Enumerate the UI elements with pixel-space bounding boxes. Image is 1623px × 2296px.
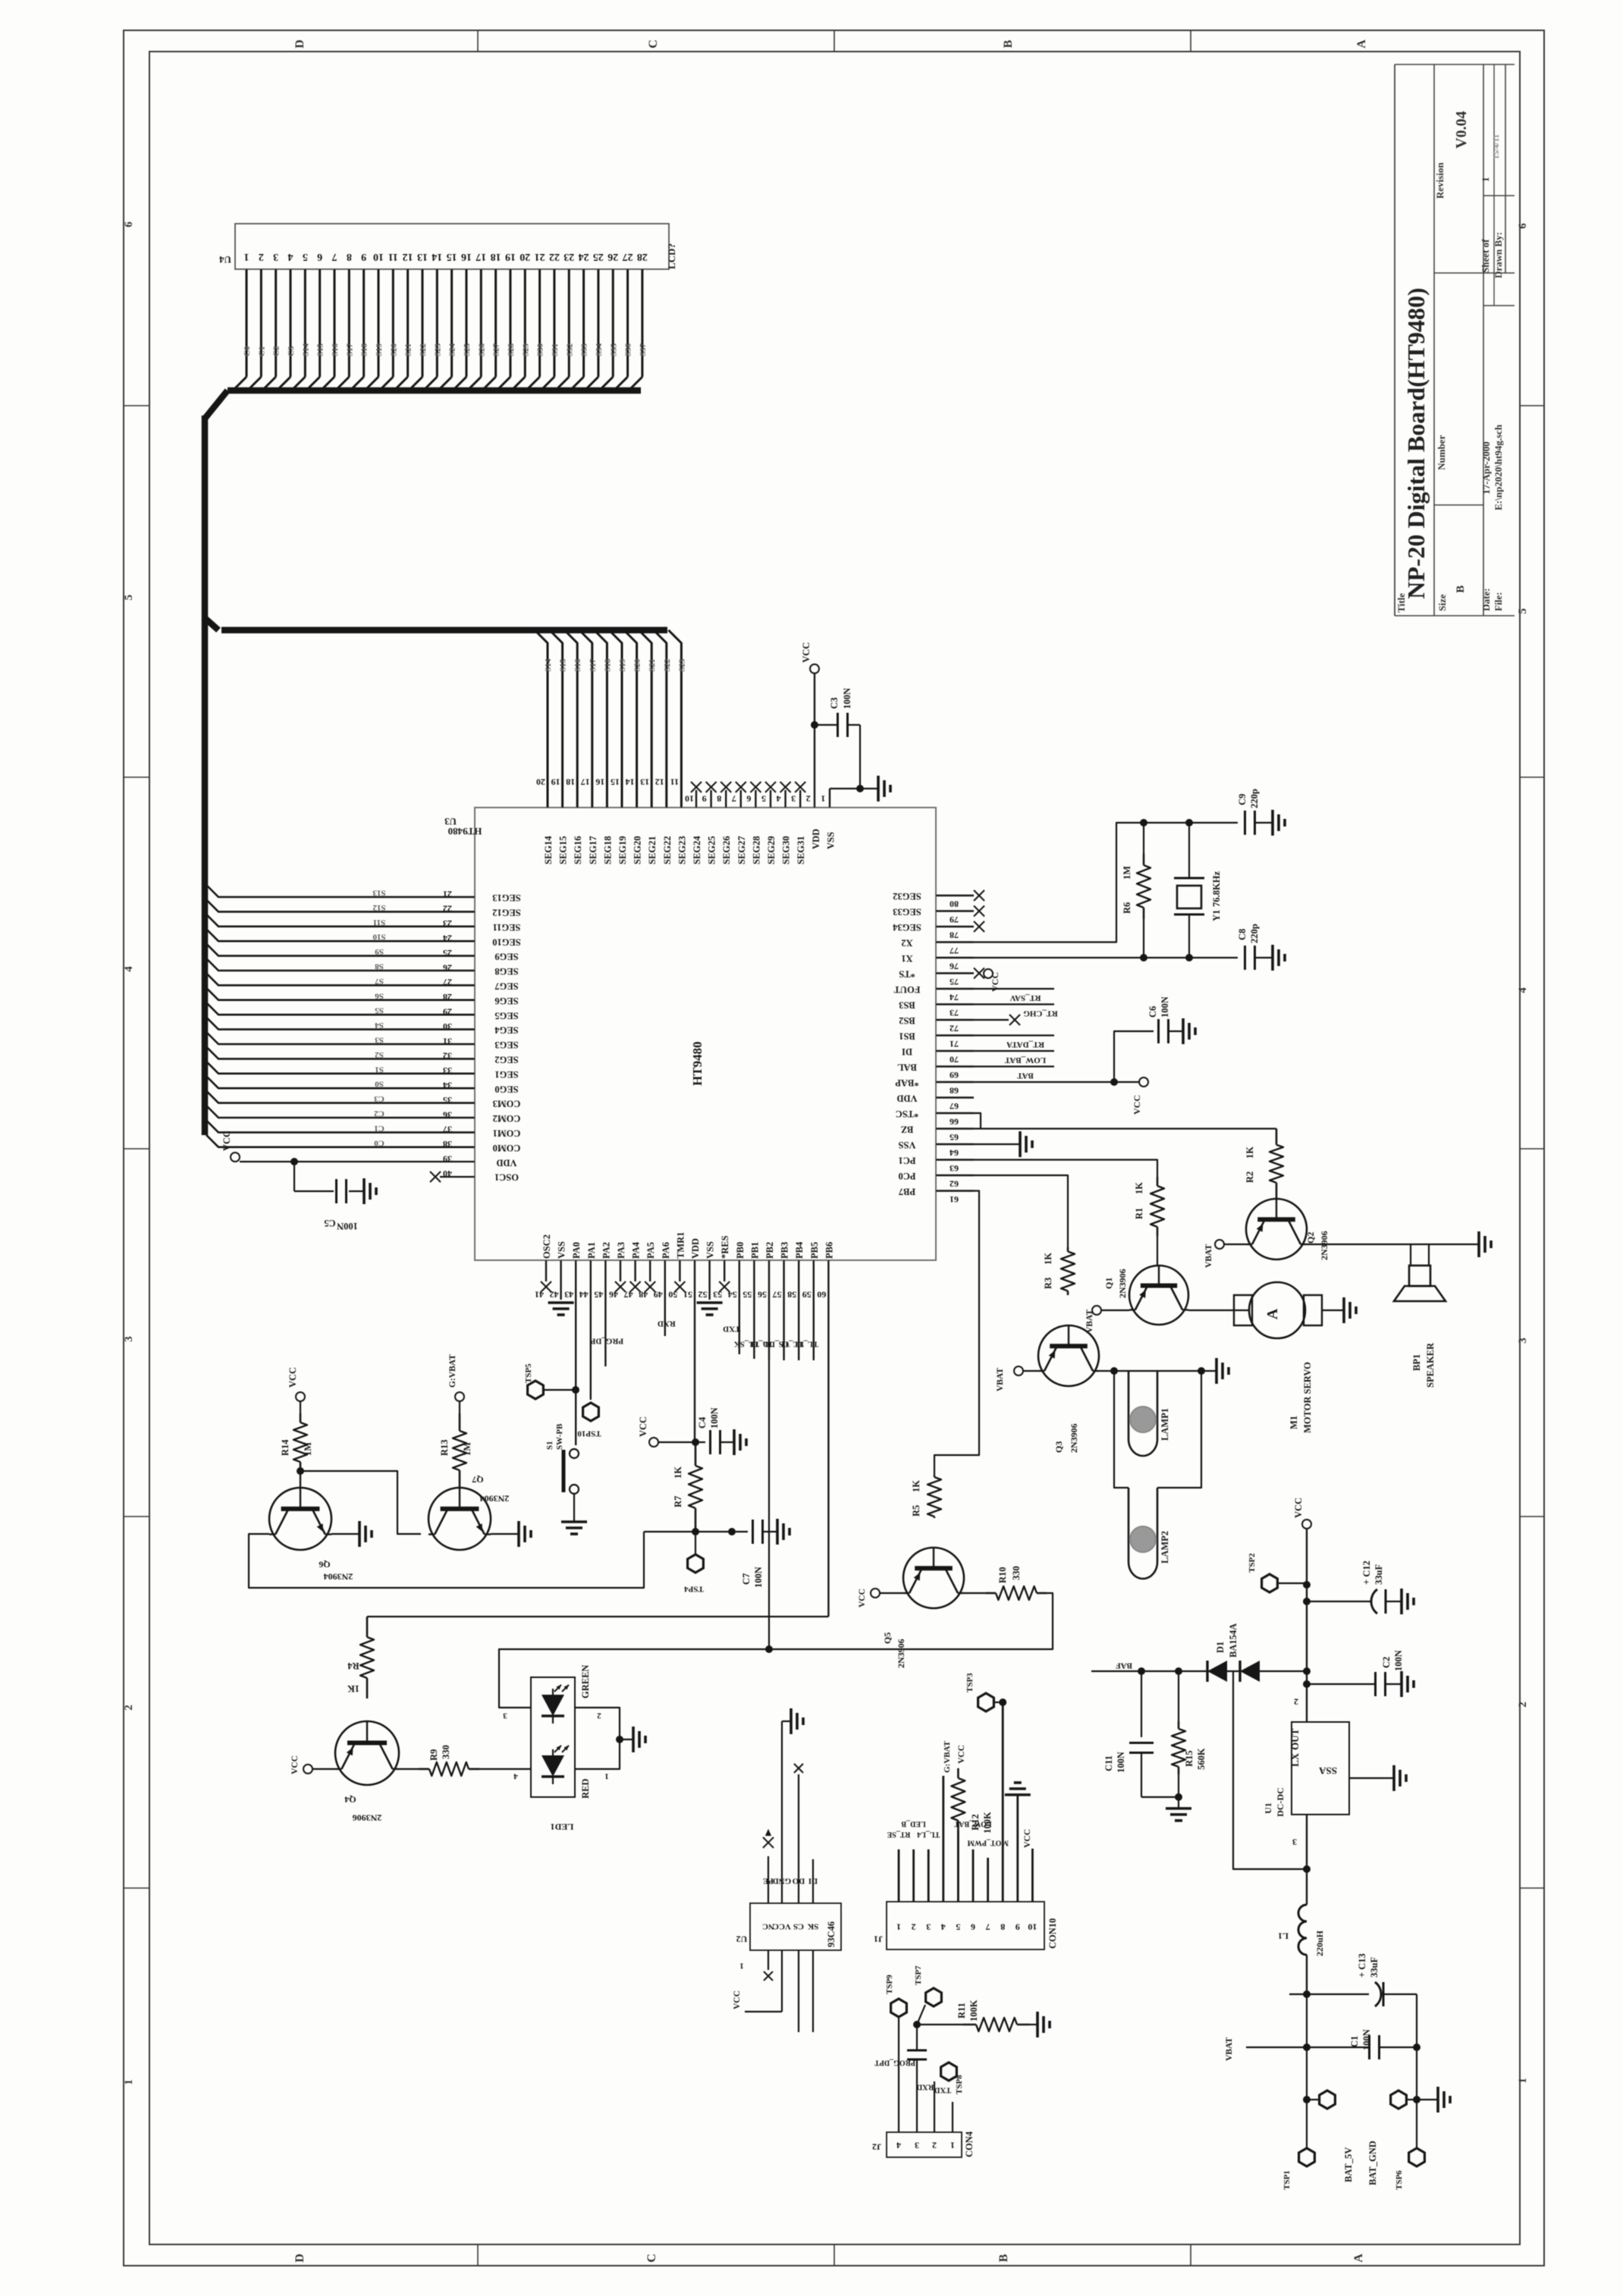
J1 pin numbers [896, 1921, 1037, 1932]
capacitor C1 100N [1349, 2029, 1421, 2059]
test point TSP4 [684, 1532, 704, 1593]
ground at U2 GND [791, 1708, 803, 1734]
svg-text:C9: C9 [1237, 794, 1248, 805]
svg-text:11: 11 [670, 776, 679, 787]
svg-text:V0.04: V0.04 [1453, 111, 1470, 149]
svg-text:100N: 100N [753, 1567, 764, 1588]
svg-text:C1: C1 [257, 347, 266, 356]
svg-text:Q1: Q1 [1103, 1278, 1114, 1289]
svg-text:S19: S19 [618, 658, 627, 672]
svg-text:R14: R14 [280, 1439, 290, 1456]
ground at C9 [1273, 810, 1285, 836]
svg-text:5: 5 [761, 793, 766, 804]
svg-text:78: 78 [950, 930, 959, 940]
U3 right pin stubs [936, 896, 974, 1191]
VCC at J1 pin 10 [1023, 1829, 1032, 1848]
svg-text:PC0: PC0 [899, 1171, 916, 1181]
svg-text:PB3: PB3 [780, 1242, 790, 1259]
svg-text:76.8KHz: 76.8KHz [1211, 871, 1222, 907]
svg-text:S5: S5 [375, 1006, 384, 1015]
x marks unused right pins [974, 890, 984, 979]
svg-text:A: A [1355, 39, 1368, 49]
svg-text:24: 24 [579, 251, 589, 262]
LED1 box [531, 1665, 591, 1833]
LED red [542, 1755, 564, 1777]
svg-text:70: 70 [950, 1054, 959, 1065]
test point TSP9 [885, 1974, 906, 2017]
svg-text:8: 8 [1000, 1921, 1005, 1932]
svg-text:S29: S29 [521, 343, 530, 356]
svg-text:G:VBAT: G:VBAT [448, 1354, 457, 1388]
svg-text:C5: C5 [324, 1218, 335, 1228]
ground after R11 [1038, 2012, 1050, 2037]
svg-text:1: 1 [950, 2140, 955, 2150]
svg-text:220p: 220p [1249, 924, 1260, 943]
capacitor C3 100N [815, 688, 860, 737]
svg-text:BA154A: BA154A [1228, 1623, 1238, 1658]
wire BS1 [974, 1034, 1054, 1036]
wire TSC jog to BZ net [974, 1113, 981, 1129]
VBAT at Q3 emitter [996, 1366, 1038, 1391]
svg-text:3: 3 [123, 1336, 135, 1342]
svg-text:DO: DO [792, 1876, 805, 1885]
svg-text:SEG23: SEG23 [677, 836, 687, 864]
svg-text:26: 26 [607, 251, 618, 262]
svg-text:100N: 100N [1160, 996, 1170, 1018]
svg-text:SEG9: SEG9 [494, 952, 518, 962]
ground at J1 pin 9 [1005, 1783, 1031, 1795]
ground at U3 pin 52 VSS [697, 1303, 723, 1315]
svg-text:C2: C2 [374, 1109, 385, 1118]
svg-text:68: 68 [950, 1085, 959, 1096]
svg-text:1: 1 [1480, 177, 1491, 183]
svg-text:33uF: 33uF [1369, 1957, 1380, 1978]
svg-text:PB1: PB1 [749, 1242, 760, 1259]
svg-text:J2: J2 [872, 2141, 881, 2152]
U3 right pin numbers [950, 899, 959, 1205]
svg-text:SEG19: SEG19 [617, 836, 628, 864]
bus main vertical [202, 416, 209, 1135]
zone letters bottom edge [294, 2254, 1365, 2263]
svg-text:1: 1 [123, 2079, 135, 2085]
svg-text:S33: S33 [580, 343, 589, 356]
svg-text:10: 10 [685, 793, 694, 804]
diode D1b [1240, 1661, 1260, 1682]
svg-text:TSP1: TSP1 [1282, 2170, 1292, 2190]
svg-text:SEG2: SEG2 [494, 1055, 518, 1065]
svg-text:TXD: TXD [723, 1324, 740, 1333]
svg-text:62: 62 [950, 1178, 959, 1189]
svg-text:3: 3 [1517, 1338, 1529, 1344]
svg-text:SEG26: SEG26 [721, 836, 732, 864]
speaker BP1 [1394, 1266, 1446, 1388]
svg-text:1K: 1K [347, 1683, 359, 1694]
svg-text:23: 23 [563, 251, 574, 262]
svg-text:LOW_BAT: LOW_BAT [1004, 1055, 1046, 1065]
svg-text:VCC: VCC [801, 642, 811, 663]
svg-text:16: 16 [595, 776, 604, 787]
svg-text:SEG4: SEG4 [494, 1025, 519, 1036]
svg-text:SW-PB: SW-PB [555, 1423, 564, 1450]
svg-text:1: 1 [739, 1961, 744, 1970]
svg-text:2N3906: 2N3906 [1319, 1231, 1329, 1260]
svg-text:LED_B: LED_B [901, 1820, 926, 1828]
ground at C3/VSS [878, 776, 890, 801]
capacitor C5 100N [294, 1162, 364, 1231]
svg-text:10: 10 [1028, 1921, 1037, 1932]
svg-text:43: 43 [564, 1289, 573, 1300]
zone letters top edge [294, 39, 1368, 49]
svg-text:2N3904: 2N3904 [480, 1493, 510, 1504]
ground at C5 [364, 1178, 376, 1204]
svg-text:SEG10: SEG10 [492, 936, 521, 947]
resistor R14 1M [280, 1401, 313, 1475]
svg-text:VBAT: VBAT [1204, 1244, 1213, 1268]
svg-text:B: B [997, 2254, 1010, 2262]
ground at BAT_GND [1417, 2087, 1450, 2113]
svg-text:B: B [1002, 39, 1015, 48]
svg-text:HT9480: HT9480 [690, 1041, 705, 1086]
svg-text:2: 2 [806, 793, 811, 804]
svg-text:S18: S18 [360, 343, 369, 356]
inductor L1 220uH [1278, 1905, 1325, 1994]
svg-text:R4: R4 [347, 1661, 359, 1671]
svg-text:C8: C8 [1237, 929, 1248, 940]
svg-text:1M: 1M [462, 1442, 472, 1456]
U3 OSC1 pin 40 no connect [430, 1172, 475, 1182]
svg-text:S22: S22 [419, 343, 428, 356]
svg-text:1K: 1K [1134, 1182, 1144, 1194]
svg-text:J1: J1 [874, 1934, 883, 1944]
svg-text:SEG16: SEG16 [573, 836, 583, 864]
svg-text:74: 74 [950, 992, 959, 1002]
svg-text:SEG29: SEG29 [766, 836, 777, 864]
svg-text:S23: S23 [677, 658, 686, 672]
svg-text:COM0: COM0 [493, 1143, 521, 1153]
svg-text:C0: C0 [374, 1138, 385, 1147]
svg-text:S15: S15 [559, 658, 568, 672]
svg-text:TSP2: TSP2 [1248, 1553, 1257, 1573]
svg-text:RT_SE: RT_SE [887, 1830, 910, 1839]
svg-text:Q2: Q2 [1305, 1232, 1316, 1244]
wire C7 node [644, 1531, 732, 1532]
svg-text:100K: 100K [968, 2000, 979, 2022]
svg-text:S1: S1 [375, 1065, 384, 1074]
wire Q2 collector to speaker and ground [1307, 1244, 1479, 1266]
svg-text:COM1: COM1 [493, 1128, 521, 1139]
svg-text:9: 9 [702, 793, 707, 804]
svg-text:OUT: OUT [1289, 1729, 1301, 1751]
G:VBAT above R13 [448, 1354, 464, 1401]
wire BS3 RT_SAV [974, 993, 1054, 1005]
svg-text:Q5: Q5 [882, 1633, 893, 1644]
svg-text:VCC: VCC [773, 1921, 791, 1931]
svg-text:Q3: Q3 [1053, 1441, 1064, 1453]
transistor Q5 2N3906 [882, 1548, 964, 1668]
svg-text:65: 65 [950, 1132, 959, 1143]
svg-text:U1: U1 [1263, 1802, 1273, 1814]
svg-text:S26: S26 [477, 343, 486, 356]
svg-text:TSP8: TSP8 [955, 2075, 964, 2094]
svg-text:S20: S20 [633, 658, 642, 672]
svg-text:PA0: PA0 [571, 1242, 582, 1259]
capacitor C13 33uF polarized [1357, 1953, 1417, 2006]
svg-text:C1: C1 [374, 1124, 384, 1133]
svg-text:S1: S1 [545, 1441, 554, 1450]
svg-text:C7: C7 [741, 1573, 752, 1585]
svg-text:S21: S21 [648, 659, 657, 672]
svg-text:VSS: VSS [898, 1140, 915, 1150]
svg-text:S20: S20 [389, 343, 398, 356]
svg-text:BAT_GND: BAT_GND [1367, 2141, 1378, 2185]
svg-text:SPEAKER: SPEAKER [1425, 1342, 1436, 1388]
zone numbers left edge [123, 221, 135, 2085]
BAT_GND terminal [1367, 2091, 1424, 2190]
svg-text:BAL: BAL [897, 1062, 917, 1073]
svg-text:220p: 220p [1249, 789, 1260, 808]
svg-text:VBAT: VBAT [1225, 2037, 1234, 2061]
svg-text:BZ: BZ [901, 1124, 914, 1135]
U3 left pin wires to bus [206, 885, 475, 1147]
svg-text:S22: S22 [663, 658, 672, 672]
VCC at Q4 emitter [290, 1755, 335, 1774]
svg-text:R5: R5 [911, 1505, 921, 1517]
svg-text:S27: S27 [492, 343, 501, 356]
U4 pin wires to bus [234, 269, 642, 390]
J1 pin wires [899, 1702, 1032, 1902]
svg-text:SEG3: SEG3 [494, 1040, 518, 1050]
svg-text:R3: R3 [1043, 1278, 1053, 1289]
resistor R4 1K [347, 1617, 374, 1698]
svg-text:4: 4 [287, 251, 293, 262]
resistor R5 1K [911, 1476, 941, 1518]
svg-text:2: 2 [123, 1705, 135, 1711]
svg-text:SEG13: SEG13 [492, 892, 521, 903]
svg-text:S8: S8 [375, 961, 384, 971]
wire PB6 to R4 [367, 1616, 828, 1617]
svg-text:18: 18 [566, 776, 575, 787]
svg-text:6: 6 [971, 1921, 975, 1932]
LED green [542, 1695, 564, 1716]
svg-text:58: 58 [787, 1289, 796, 1300]
svg-text:61: 61 [950, 1194, 959, 1205]
ground right of U1 [1349, 1765, 1406, 1791]
svg-text:20: 20 [520, 251, 530, 262]
svg-text:16: 16 [461, 251, 472, 262]
svg-text:+ C12: + C12 [1361, 1560, 1372, 1585]
svg-text:R13: R13 [439, 1439, 450, 1456]
IC U3 box [475, 808, 936, 1260]
svg-text:S12: S12 [372, 903, 386, 912]
svg-text:25: 25 [593, 251, 604, 262]
svg-text:CS: CS [793, 1921, 804, 1931]
svg-text:PB2: PB2 [764, 1242, 775, 1259]
U3 right pin names [892, 891, 921, 1197]
svg-text:13: 13 [640, 776, 649, 787]
svg-text:93C46: 93C46 [826, 1921, 837, 1947]
VBAT at Q1 emitter [1085, 1306, 1129, 1333]
svg-text:9: 9 [1016, 1921, 1020, 1932]
svg-text:7: 7 [331, 251, 337, 262]
svg-text:RED: RED [580, 1779, 591, 1799]
svg-text:Sheet of: Sheet of [1480, 239, 1491, 273]
svg-text:X2: X2 [901, 938, 912, 949]
wire R10 to LED1 green anode [499, 1593, 1053, 1708]
bus upper horizontal [228, 387, 641, 394]
svg-text:PROG_DPT: PROG_DPT [874, 2059, 915, 2067]
svg-text:BS1: BS1 [899, 1031, 915, 1042]
svg-text:SEG15: SEG15 [558, 836, 569, 864]
svg-text:17-Apr-2000: 17-Apr-2000 [1480, 441, 1492, 494]
svg-text:PA5: PA5 [645, 1242, 656, 1259]
svg-text:*BAP: *BAP [895, 1077, 919, 1088]
svg-text:6: 6 [746, 793, 751, 804]
bus left elbow [205, 391, 228, 419]
svg-text:PB0: PB0 [735, 1242, 746, 1259]
wire FOUT pin 74 [974, 988, 1054, 990]
x marks on unused bottom pins [541, 1281, 730, 1292]
svg-text:TSP7: TSP7 [914, 1965, 923, 1985]
svg-text:1: 1 [244, 251, 250, 262]
svg-text:6: 6 [1517, 223, 1529, 229]
VBAT wire [1225, 2037, 1369, 2061]
U3 left wire net labels [372, 888, 386, 1147]
svg-text:SEG17: SEG17 [588, 836, 598, 864]
capacitor C11 100N [1103, 1671, 1154, 1797]
svg-text:OSC1: OSC1 [494, 1172, 519, 1183]
capacitor C6 100N [1114, 996, 1183, 1082]
svg-text:2N3906: 2N3906 [896, 1639, 906, 1668]
J2 net labels [874, 2059, 951, 2094]
svg-text:VCC: VCC [638, 1416, 648, 1437]
connector U4 LCD box [235, 224, 669, 269]
svg-text:VBAT: VBAT [1085, 1310, 1094, 1333]
svg-text:DI: DI [902, 1046, 912, 1057]
svg-text:2: 2 [1517, 1702, 1529, 1708]
U3 bottom pin names [542, 1232, 834, 1259]
svg-text:14: 14 [626, 776, 635, 787]
svg-text:4: 4 [123, 966, 135, 972]
resistor R15 560K [1172, 1671, 1207, 1797]
EEPROM U2 93C46 box [736, 1903, 841, 1950]
svg-text:S6: S6 [375, 991, 384, 1000]
U3 bottom pin stubs [546, 1260, 828, 1617]
svg-text:TXD: TXD [934, 2086, 951, 2094]
svg-text:100N: 100N [1116, 1752, 1126, 1773]
svg-text:D1: D1 [1215, 1642, 1226, 1653]
svg-text:S9: S9 [375, 947, 384, 956]
title block outline [1395, 64, 1515, 616]
svg-text:S32: S32 [565, 343, 574, 356]
svg-text:BAT_5V: BAT_5V [1343, 2147, 1354, 2182]
lamp LAMP1 [1129, 1371, 1170, 1456]
svg-text:69: 69 [950, 1070, 959, 1081]
ground at C4 [734, 1429, 746, 1455]
U4 pin numbers 1-28 [244, 251, 648, 262]
svg-text:19: 19 [551, 776, 560, 787]
U2 bottom pin names [762, 1921, 818, 1931]
ground at C7 [777, 1519, 790, 1545]
svg-text:7: 7 [732, 793, 736, 804]
svg-text:20: 20 [536, 776, 545, 787]
resistor R12 100K [951, 1745, 993, 1833]
svg-text:TSP9: TSP9 [885, 1974, 894, 1994]
svg-text:S16: S16 [331, 343, 340, 356]
wire X1 crystal bottom node [974, 957, 1238, 958]
svg-text:VCC: VCC [733, 1990, 742, 2009]
svg-text:75: 75 [950, 977, 959, 987]
svg-text:S24: S24 [448, 343, 457, 356]
test point TSP10 [577, 1403, 601, 1438]
wire X2 to crystal top node [974, 823, 1238, 943]
VCC supply to U3 VDD pin 39 [221, 1131, 475, 1165]
svg-text:SEG7: SEG7 [494, 981, 518, 992]
svg-text:VDD: VDD [690, 1238, 701, 1259]
svg-text:Number: Number [1436, 435, 1447, 470]
svg-text:11: 11 [388, 251, 398, 262]
svg-text:C1: C1 [1349, 2036, 1360, 2047]
svg-text:U3: U3 [444, 816, 457, 827]
test point TSP3 at J1 pin 8 [965, 1673, 1006, 1711]
svg-text:100N: 100N [1361, 2029, 1372, 2050]
svg-text:56: 56 [758, 1289, 767, 1300]
svg-text:PA4: PA4 [631, 1241, 642, 1259]
svg-text:HT9480: HT9480 [448, 826, 482, 837]
svg-text:Revision: Revision [1434, 162, 1446, 199]
capacitor in J2 pin3 wire [907, 2050, 927, 2052]
svg-text:VCC: VCC [858, 1589, 867, 1608]
svg-text:SEG1: SEG1 [494, 1069, 518, 1080]
svg-text:S19: S19 [375, 343, 384, 356]
transistor Q4 2N3906 [335, 1721, 399, 1823]
svg-text:SEG25: SEG25 [707, 836, 717, 864]
svg-text:R11: R11 [956, 2003, 967, 2018]
svg-text:TSP4: TSP4 [684, 1584, 704, 1593]
svg-text:15: 15 [611, 776, 620, 787]
svg-text:7: 7 [986, 1921, 990, 1932]
svg-text:C3: C3 [829, 698, 840, 709]
U2 top pin wires [763, 1721, 813, 1903]
svg-text:4: 4 [1517, 987, 1529, 993]
svg-text:SEG31: SEG31 [796, 836, 806, 864]
wire LAMP2 right to node [1157, 1371, 1201, 1488]
svg-text:LCD?: LCD? [666, 243, 677, 269]
svg-text:PA2: PA2 [601, 1242, 611, 1259]
svg-text:63: 63 [950, 1163, 959, 1174]
wire green anode from PB2 [503, 1360, 773, 1720]
svg-text:VCC: VCC [221, 1131, 232, 1151]
wire BZ to R2 [974, 1128, 1276, 1129]
svg-text:S0: S0 [375, 1080, 384, 1089]
BAT_5V terminal [1282, 2047, 1354, 2190]
ground at C2 [1402, 1671, 1414, 1697]
svg-text:PA6: PA6 [661, 1242, 671, 1259]
svg-text:S16: S16 [573, 658, 582, 672]
ground at lamps [1216, 1358, 1229, 1384]
svg-text:4: 4 [896, 2140, 901, 2150]
svg-text:S30: S30 [536, 343, 545, 356]
svg-text:1: 1 [1517, 2078, 1529, 2084]
svg-text:VDD: VDD [896, 1093, 917, 1104]
resistor R10 330 [964, 1566, 1047, 1600]
transistor Q7 2N3904 [429, 1474, 509, 1550]
svg-text:R2: R2 [1245, 1172, 1255, 1183]
svg-text:560K: 560K [1196, 1748, 1207, 1770]
bus junction lower-left [205, 618, 218, 630]
svg-text:S18: S18 [603, 658, 612, 672]
test point TSP7 [914, 1965, 941, 2025]
svg-text:100K: 100K [982, 1811, 993, 1833]
